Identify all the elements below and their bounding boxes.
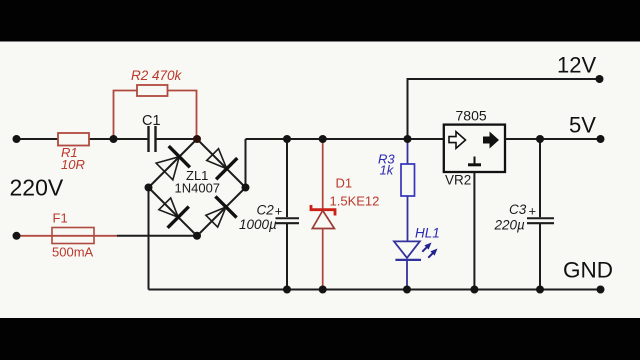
svg-text:C3: C3 — [509, 202, 527, 217]
wire: bridge right node up to DC+ rail — [245, 139, 247, 188]
svg-text:220V: 220V — [10, 175, 64, 201]
wire: AC live rail from left terminal to C1 — [17, 138, 148, 140]
resistor R1 — [58, 133, 89, 172]
node: bridge right — [242, 184, 250, 192]
wire: AC neutral from fuse to bridge bottom node — [117, 235, 197, 237]
label 220V — [10, 175, 64, 201]
diode D-BL (left node to bottom node) — [159, 198, 189, 228]
svg-text:F1: F1 — [53, 211, 68, 226]
node: D1 top junction — [319, 135, 327, 143]
svg-text:500mA: 500mA — [52, 245, 94, 260]
label 12V — [557, 53, 596, 78]
svg-text:12V: 12V — [557, 53, 596, 78]
node: left AC terminal bottom — [13, 232, 21, 240]
svg-text:R2 470k: R2 470k — [131, 68, 183, 83]
node: 5V terminal — [597, 135, 605, 143]
svg-text:7805: 7805 — [456, 108, 487, 124]
wire: bridge left node down to ground rail — [148, 188, 150, 290]
diode D-TL (left node to top node) — [156, 146, 190, 180]
svg-text:C1: C1 — [142, 113, 161, 129]
svg-text:C2: C2 — [257, 203, 275, 218]
svg-text:GND: GND — [563, 258, 613, 283]
capacitor C3 — [494, 139, 555, 290]
7805 ground pin symbol — [468, 157, 481, 165]
7805 output arrow (solid) — [483, 132, 499, 149]
svg-text:1k: 1k — [380, 163, 395, 178]
LED light arrows — [422, 243, 437, 258]
LED HL1 (blue) — [394, 196, 440, 290]
resistor R3 (blue) — [378, 139, 415, 196]
node: left AC terminal top — [13, 135, 21, 143]
wire: ground rail — [149, 289, 601, 291]
diode D-TR (top node to right node) — [207, 149, 238, 180]
node: 12V terminal — [596, 75, 604, 83]
node: bridge bottom — [193, 232, 201, 240]
wire: C1 right plate to bridge top node — [157, 138, 198, 140]
node: R1/R2 junction — [110, 135, 118, 143]
svg-text:220µ: 220µ — [494, 218, 526, 233]
node: bridge left — [145, 184, 153, 192]
regulator U1 7805 — [444, 108, 505, 188]
label 5V — [569, 113, 596, 138]
node: C2 top junction — [283, 135, 291, 143]
node: GND terminal — [597, 286, 605, 294]
wire: 12V tap up and right — [408, 79, 600, 139]
bridge rectifier ZL1 diamond wires — [149, 139, 246, 236]
svg-text:5V: 5V — [569, 113, 596, 138]
node: HL1 ground junction — [403, 286, 411, 294]
capacitor C1 — [142, 113, 161, 152]
bottom letterbox bar — [0, 318, 640, 360]
svg-text:10R: 10R — [61, 157, 85, 172]
node: C3 ground junction — [536, 286, 544, 294]
fuse F1 — [17, 211, 118, 260]
svg-text:VR2: VR2 — [445, 173, 471, 188]
node: bridge top — [193, 135, 201, 143]
wire: red branch up to R2 (left side) — [114, 91, 138, 140]
diode D1 (1.5KE12 TVS, red) — [311, 139, 379, 290]
wire: 7805 output to 5V terminal — [505, 138, 601, 140]
svg-text:1N4007: 1N4007 — [175, 181, 221, 196]
svg-text:+: + — [529, 204, 537, 219]
node: C2 ground junction — [283, 286, 291, 294]
svg-text:1.5KE12: 1.5KE12 — [330, 194, 380, 209]
svg-text:D1: D1 — [336, 176, 353, 191]
wire: 7805 ground pin down to ground rail — [473, 172, 475, 290]
wire: red branch from R2 down to bridge top node (right side) — [168, 91, 197, 140]
top letterbox bar — [0, 0, 640, 42]
svg-text:HL1: HL1 — [415, 226, 440, 241]
node: 7805 ground junction — [470, 286, 478, 294]
7805 input arrow (outline) — [449, 132, 466, 149]
capacitor C2 — [239, 139, 299, 290]
node: R3/12V junction — [404, 135, 412, 143]
node: C3 top junction — [536, 135, 544, 143]
label GND — [563, 258, 613, 283]
svg-text:1000µ: 1000µ — [239, 217, 277, 232]
node: D1 ground junction — [319, 286, 327, 294]
resistor R2 — [131, 68, 183, 96]
wire: DC+ rail from bridge to 7805 input — [246, 138, 444, 140]
diode D-BR (bottom node to right node) — [206, 196, 237, 227]
